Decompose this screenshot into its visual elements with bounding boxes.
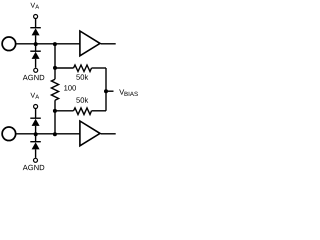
wire U1 output: [101, 43, 116, 45]
junction diode stack / top wire: [34, 42, 38, 46]
terminal AGND top (circle): [34, 68, 38, 72]
diode D2 (AGND to signal): [30, 44, 41, 68]
terminal VA top (circle): [34, 15, 38, 19]
label 50k (top resistor): [76, 74, 88, 80]
diode D4 (AGND to signal): [30, 134, 41, 158]
label AGND (bottom): [23, 165, 45, 170]
node VBIAS tap: [104, 89, 108, 93]
node B (top of R2): [53, 66, 57, 70]
resistor R3 50k (bottom): [55, 108, 106, 115]
port J2 (bottom input circle): [2, 127, 16, 141]
wire VA terminal to D3: [35, 109, 37, 118]
resistor R2 100 (vertical): [51, 68, 58, 111]
node A (top wire to divider): [53, 42, 57, 46]
wire VA terminal to D1: [35, 19, 37, 28]
wire bottom channel input: [17, 133, 80, 135]
wire U2 output: [101, 133, 116, 135]
label 50k (bottom resistor): [76, 97, 88, 103]
junction diode stack / bottom wire: [34, 132, 38, 136]
terminal VA bottom (circle): [34, 105, 38, 109]
terminal AGND bottom (circle): [34, 158, 38, 162]
label 100: [64, 85, 76, 90]
wire node A to node B: [54, 44, 56, 68]
diode D1 (signal to VA): [30, 28, 41, 44]
port J1 (top input circle): [2, 37, 16, 51]
op-amp U1 (top buffer): [80, 31, 100, 56]
resistor R1 50k (top): [55, 65, 106, 72]
node D (bottom wire to divider): [53, 132, 57, 136]
op-amp U2 (bottom buffer): [80, 121, 100, 146]
wire right rail joining R1 and R3: [105, 68, 107, 111]
diode D3 (signal to VA): [30, 118, 41, 134]
wire node C to node D: [54, 111, 56, 134]
wire top channel input: [17, 43, 80, 45]
label AGND (top): [23, 75, 45, 80]
label VA (bottom): [30, 93, 39, 99]
wire VBIAS stub: [106, 90, 114, 92]
label VA (top): [30, 3, 39, 9]
node C (bottom of R2): [53, 109, 57, 113]
label VBIAS: [119, 89, 138, 96]
